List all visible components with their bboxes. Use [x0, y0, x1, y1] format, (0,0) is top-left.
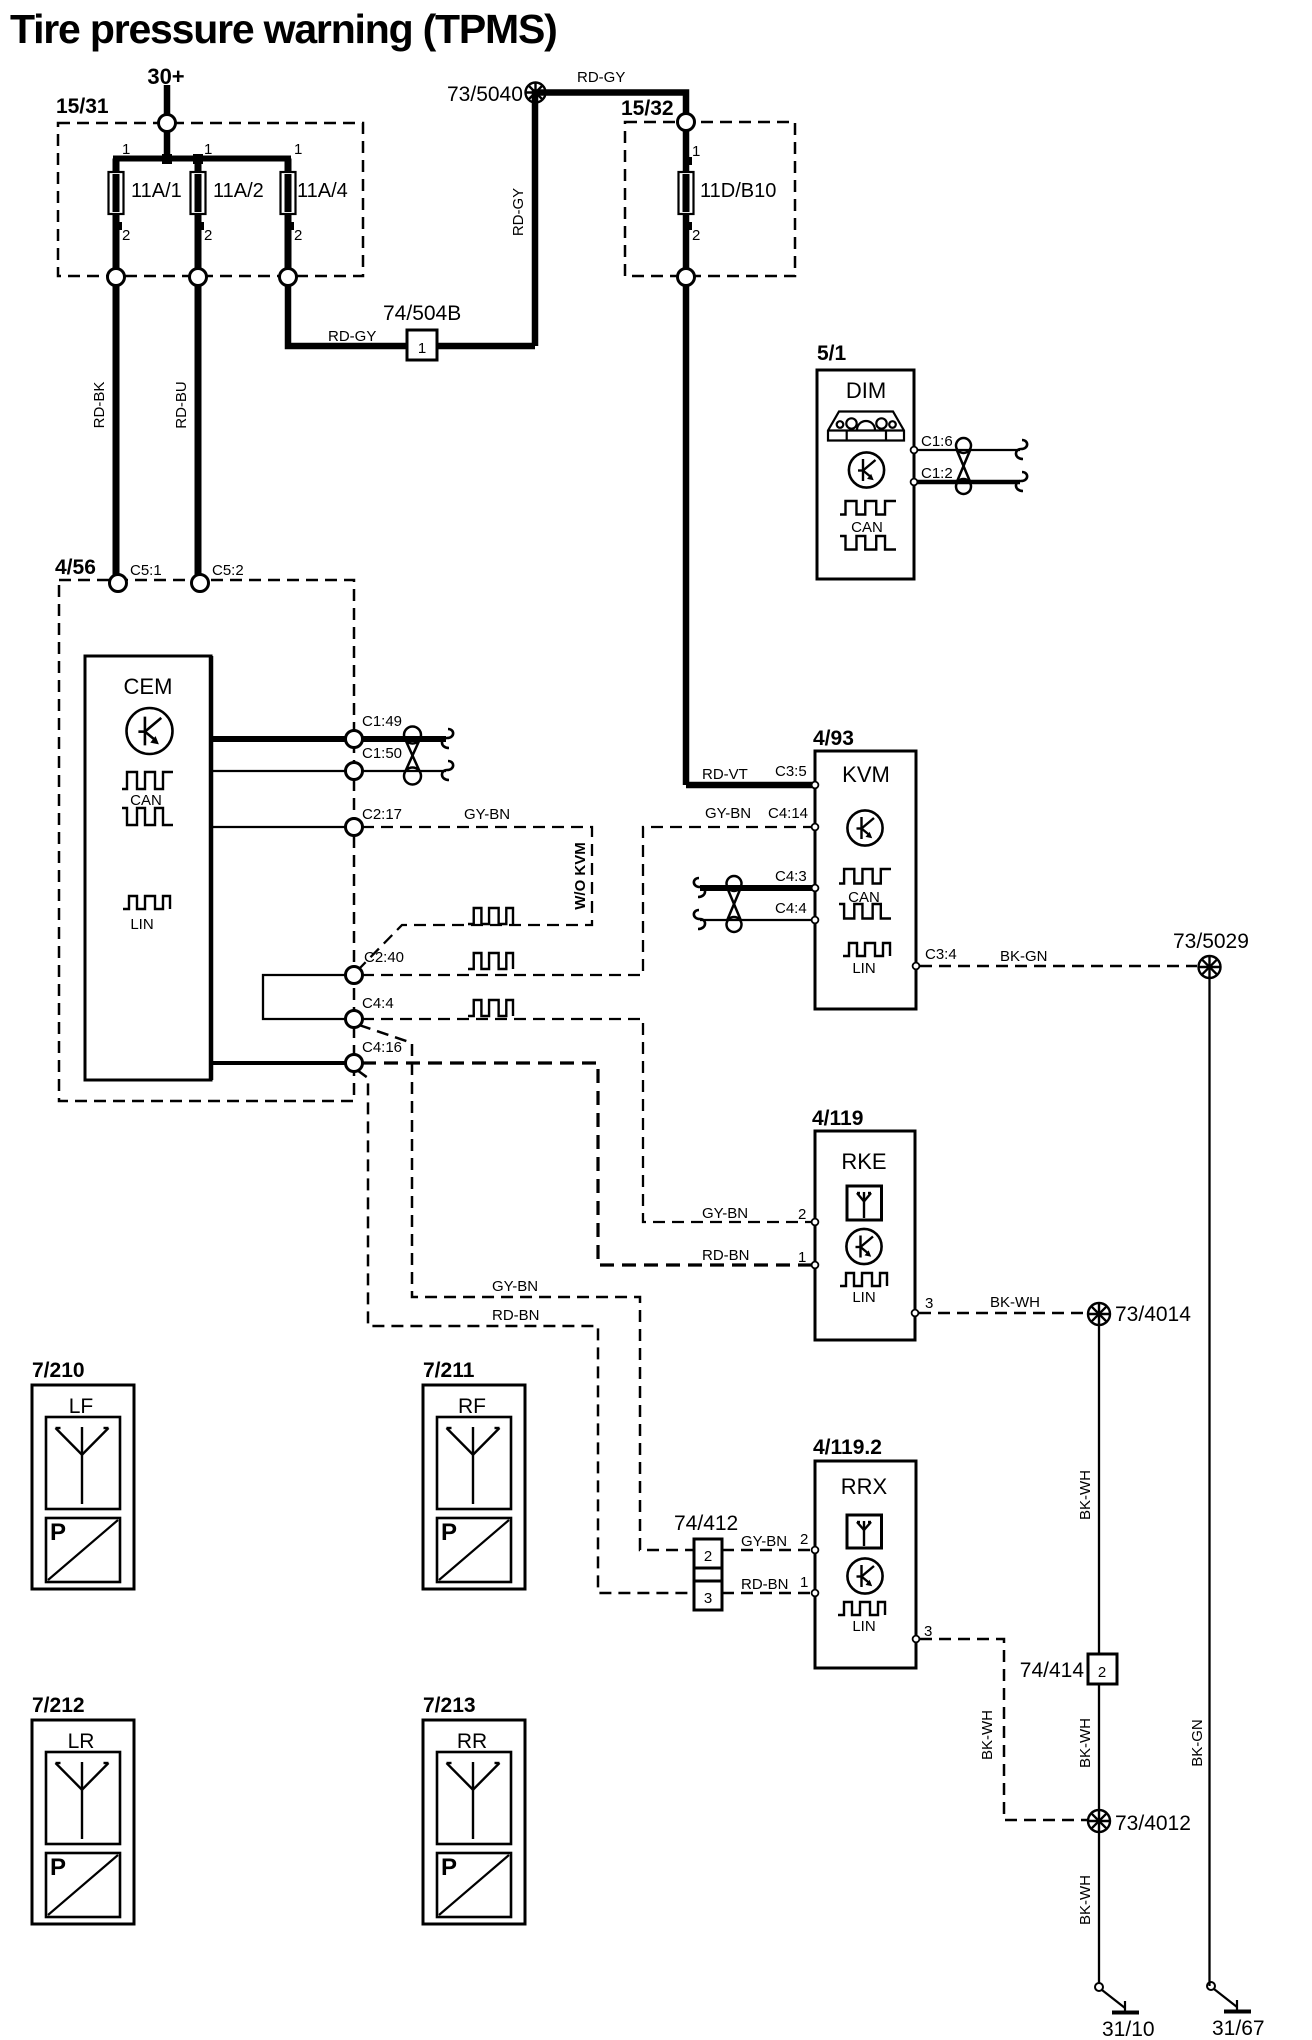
svg-text:2: 2: [798, 1206, 806, 1223]
svg-text:CAN: CAN: [851, 519, 883, 536]
svg-text:LIN: LIN: [852, 1618, 875, 1635]
svg-text:2: 2: [204, 227, 212, 244]
svg-text:RKE: RKE: [841, 1149, 886, 1174]
svg-text:GY-BN: GY-BN: [705, 805, 751, 822]
svg-text:2: 2: [122, 227, 130, 244]
svg-text:2: 2: [704, 1548, 712, 1565]
svg-text:GY-BN: GY-BN: [702, 1205, 748, 1222]
svg-text:4/119.2: 4/119.2: [813, 1436, 882, 1459]
svg-text:GY-BN: GY-BN: [741, 1533, 787, 1550]
svg-text:RD-BU: RD-BU: [173, 381, 190, 429]
svg-text:LIN: LIN: [130, 916, 153, 933]
svg-text:7/210: 7/210: [32, 1359, 85, 1382]
svg-text:C3:4: C3:4: [925, 946, 957, 963]
svg-text:7/211: 7/211: [423, 1359, 475, 1382]
svg-text:31/10: 31/10: [1102, 2018, 1155, 2040]
svg-text:C2:40: C2:40: [364, 949, 404, 966]
svg-text:1: 1: [418, 340, 426, 357]
svg-text:RD-GY: RD-GY: [577, 69, 625, 86]
svg-text:7/212: 7/212: [32, 1694, 85, 1717]
svg-text:1: 1: [294, 141, 302, 158]
svg-text:C4:16: C4:16: [362, 1039, 402, 1056]
svg-text:BK-WH: BK-WH: [1077, 1875, 1094, 1925]
svg-text:3: 3: [925, 1295, 933, 1312]
svg-text:BK-WH: BK-WH: [979, 1710, 996, 1760]
svg-text:C5:1: C5:1: [130, 562, 162, 579]
svg-text:11A/2: 11A/2: [213, 180, 264, 202]
svg-text:C1:49: C1:49: [362, 713, 402, 730]
svg-text:74/412: 74/412: [674, 1512, 738, 1535]
svg-text:31/67: 31/67: [1212, 2017, 1265, 2040]
svg-text:LIN: LIN: [852, 1289, 875, 1306]
svg-text:P: P: [50, 1854, 66, 1881]
svg-text:RD-GY: RD-GY: [328, 328, 376, 345]
svg-text:C1:50: C1:50: [362, 745, 402, 762]
svg-text:LF: LF: [69, 1395, 94, 1418]
svg-text:73/4014: 73/4014: [1115, 1303, 1191, 1326]
svg-text:BK-WH: BK-WH: [1077, 1718, 1094, 1768]
svg-text:LR: LR: [68, 1730, 95, 1753]
svg-text:73/5040: 73/5040: [447, 83, 523, 106]
svg-text:CEM: CEM: [124, 674, 173, 699]
svg-text:30+: 30+: [147, 64, 184, 89]
svg-text:P: P: [50, 1519, 66, 1546]
svg-text:5/1: 5/1: [817, 342, 847, 365]
svg-text:GY-BN: GY-BN: [492, 1278, 538, 1295]
svg-text:RD-GY: RD-GY: [510, 188, 527, 236]
svg-text:15/32: 15/32: [621, 97, 674, 120]
svg-text:1: 1: [692, 143, 700, 160]
svg-text:C2:17: C2:17: [362, 806, 402, 823]
svg-text:C4:3: C4:3: [775, 868, 807, 885]
svg-text:2: 2: [294, 227, 302, 244]
svg-text:2: 2: [1098, 1664, 1106, 1681]
svg-text:RF: RF: [458, 1395, 486, 1418]
svg-text:11D/B10: 11D/B10: [700, 180, 776, 202]
svg-text:C5:2: C5:2: [212, 562, 244, 579]
svg-text:RR: RR: [457, 1730, 487, 1753]
svg-text:C3:5: C3:5: [775, 763, 807, 780]
svg-text:P: P: [441, 1519, 457, 1546]
svg-text:BK-WH: BK-WH: [1077, 1470, 1094, 1520]
svg-text:3: 3: [704, 1590, 712, 1607]
svg-text:74/414: 74/414: [1020, 1659, 1085, 1682]
svg-text:C4:4: C4:4: [775, 900, 807, 917]
svg-text:CAN: CAN: [130, 792, 162, 809]
svg-text:4/93: 4/93: [813, 727, 854, 750]
svg-text:P: P: [441, 1854, 457, 1881]
svg-text:DIM: DIM: [846, 378, 886, 403]
svg-text:BK-GN: BK-GN: [1000, 948, 1048, 965]
svg-text:4/119: 4/119: [812, 1107, 863, 1130]
svg-text:KVM: KVM: [842, 762, 890, 787]
svg-text:RD-BN: RD-BN: [741, 1576, 789, 1593]
svg-text:1: 1: [798, 1249, 806, 1266]
svg-text:RD-BN: RD-BN: [702, 1247, 750, 1264]
svg-text:Tire pressure warning (TPMS): Tire pressure warning (TPMS): [10, 6, 557, 52]
svg-text:BK-WH: BK-WH: [990, 1294, 1040, 1311]
svg-text:2: 2: [692, 227, 700, 244]
svg-text:LIN: LIN: [852, 960, 875, 977]
svg-text:RD-BK: RD-BK: [91, 382, 108, 429]
svg-text:1: 1: [800, 1574, 808, 1591]
svg-text:BK-GN: BK-GN: [1189, 1719, 1206, 1767]
svg-text:4/56: 4/56: [55, 556, 96, 579]
svg-text:GY-BN: GY-BN: [464, 806, 510, 823]
svg-text:73/5029: 73/5029: [1173, 930, 1249, 953]
svg-text:C4:14: C4:14: [768, 805, 808, 822]
svg-text:C1:2: C1:2: [921, 465, 953, 482]
svg-text:RD-BN: RD-BN: [492, 1307, 540, 1324]
svg-text:73/4012: 73/4012: [1115, 1812, 1191, 1835]
svg-text:RRX: RRX: [841, 1474, 888, 1499]
svg-text:W/O KVM: W/O KVM: [572, 842, 589, 910]
svg-text:RD-VT: RD-VT: [702, 766, 748, 783]
svg-text:3: 3: [924, 1623, 932, 1640]
svg-text:11A/4: 11A/4: [297, 180, 348, 202]
svg-text:C4:4: C4:4: [362, 995, 394, 1012]
svg-text:1: 1: [122, 141, 130, 158]
svg-text:74/504B: 74/504B: [383, 302, 461, 325]
svg-text:1: 1: [204, 141, 212, 158]
svg-text:2: 2: [800, 1531, 808, 1548]
svg-text:15/31: 15/31: [56, 95, 109, 118]
svg-text:C1:6: C1:6: [921, 433, 953, 450]
svg-text:11A/1: 11A/1: [131, 180, 182, 202]
svg-text:7/213: 7/213: [423, 1694, 476, 1717]
